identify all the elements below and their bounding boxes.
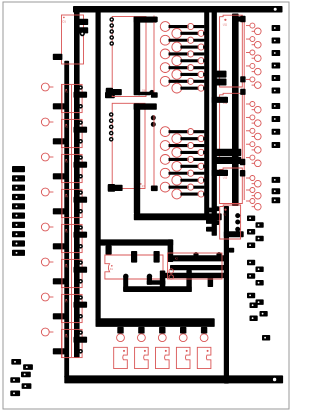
pad bottom-left 4 <box>10 377 20 383</box>
via pair G2-A1 <box>160 127 204 137</box>
relay K2 outline <box>168 253 222 279</box>
pad left column 10 <box>12 250 25 256</box>
net chain link mid <box>71 85 73 357</box>
junction P7-a <box>151 115 156 120</box>
pad right column 7 <box>272 103 281 109</box>
svg-text:D1: D1 <box>63 20 67 24</box>
LED D13 pair <box>246 188 261 200</box>
via P7-1 <box>109 112 114 117</box>
svg-text:K1: K1 <box>110 269 114 271</box>
pad N3-5 <box>240 170 245 177</box>
IC U12 outline <box>220 93 243 162</box>
via pair G2-A5 <box>160 182 204 192</box>
LED D8 pair <box>246 115 261 126</box>
junction Ha-1 <box>193 252 198 257</box>
LED D2 pair <box>246 23 261 34</box>
pad chain 6 <box>247 260 255 266</box>
wire J1 trunk <box>134 17 141 96</box>
pad D1-3 <box>53 54 63 60</box>
connector X5 outline <box>197 347 211 368</box>
wire V1 <box>168 239 174 262</box>
pad left column 2 <box>12 175 25 181</box>
wire Ha <box>168 255 226 261</box>
via R4 top <box>78 190 83 195</box>
pad right column 12 <box>272 188 281 194</box>
wire loop vertical 2 <box>186 270 191 292</box>
via P7-3 <box>109 125 114 130</box>
via pair G2-B5 <box>172 189 205 199</box>
wire P1 foot <box>224 231 244 237</box>
pin pad R6-b (left stub) <box>53 278 65 284</box>
via R3 top <box>78 155 83 160</box>
pad bottom-left 2 <box>23 364 33 370</box>
pad K1 top1 <box>131 251 137 263</box>
wire trunk A (left inner vertical) <box>74 7 80 358</box>
pad T2 side a <box>215 206 220 211</box>
pad chain 1 <box>247 216 255 222</box>
via pair G2-A4 <box>160 168 204 178</box>
pad K2 bottom <box>208 277 214 287</box>
pad right column 13 <box>272 197 281 203</box>
via pair G1-B5 <box>172 83 205 93</box>
pin pad R6-a (crossbar) <box>74 267 88 273</box>
pin circle X3 <box>158 334 166 342</box>
pin pad X3 <box>159 327 165 334</box>
via R7 bottom <box>78 314 83 319</box>
pin pad R4-b (left stub) <box>53 208 65 214</box>
pad N3-3 <box>240 89 245 95</box>
via D1 <box>80 31 85 36</box>
connector X4 outline <box>176 347 190 368</box>
wire top ground bus <box>73 6 283 13</box>
via J1-1 <box>109 17 114 22</box>
resistor R3 outline <box>62 154 83 182</box>
pad U11 bot2 <box>212 79 227 86</box>
pad right column 10 <box>272 142 281 148</box>
via R2 bottom <box>78 139 83 144</box>
wire U-link vertical 2 <box>160 271 166 288</box>
pad left column 8 <box>12 231 25 237</box>
pad T3 side <box>229 248 234 253</box>
via pair G1-B4 <box>172 70 205 80</box>
wire U-link vertical <box>147 276 152 285</box>
connector X1 outline <box>114 347 128 368</box>
LED D4 pair <box>246 50 261 62</box>
pad P1-3 <box>206 227 213 232</box>
LED D14 pair <box>246 199 261 211</box>
pin pad R1-a (crossbar) <box>74 92 88 98</box>
LED D7 pair <box>246 102 261 113</box>
via R5 top <box>78 225 83 230</box>
pad U12 bot2 <box>214 157 242 164</box>
connector P1 outline <box>220 205 241 239</box>
via J1-4 <box>109 35 114 40</box>
pad chain 15 <box>262 335 270 341</box>
resistor R1 outline <box>62 84 83 112</box>
pin pad X5 <box>201 327 207 334</box>
via pair G2-A3 <box>160 155 204 165</box>
via R7 top <box>78 295 83 300</box>
via pair G2-A2 <box>160 141 204 151</box>
junction P1-b <box>235 220 240 225</box>
pin pad R4-a (crossbar) <box>74 197 88 203</box>
pad right column 2 <box>272 38 281 44</box>
pad left column 7 <box>12 222 25 228</box>
wire connector bus <box>96 318 215 327</box>
pin pad R2-a (crossbar) <box>74 127 88 133</box>
pad right column 4 <box>272 63 281 69</box>
via R1 bottom <box>78 104 83 109</box>
net link N1 <box>153 16 155 98</box>
wire Hb <box>170 265 225 270</box>
wire Hc <box>164 273 225 278</box>
pad bottom-left 3 <box>21 372 31 378</box>
pad right column 8 <box>272 116 281 122</box>
pad right column 5 <box>272 75 281 81</box>
via R3 bottom <box>78 174 83 179</box>
pad chain 9 <box>256 280 264 286</box>
test point TP5 <box>41 223 53 231</box>
wire J1 arm <box>134 17 157 23</box>
via pair G1-B3 <box>172 56 205 66</box>
pad chain 8 <box>247 273 255 279</box>
pad N3-4 <box>240 159 245 166</box>
via pair G2-B2 <box>172 148 205 158</box>
LED D5 pair <box>246 63 261 75</box>
pad N1 top <box>151 17 158 23</box>
LED D11 pair <box>246 155 261 167</box>
via R1 top <box>78 85 83 90</box>
pad chain 10 <box>247 293 255 299</box>
wire P7 arm <box>134 103 157 109</box>
junction Ha-2 <box>216 252 221 257</box>
via pair G1-B2 <box>172 42 205 52</box>
pad D1-2 <box>79 27 88 33</box>
pad bottom-left 1 <box>11 359 21 365</box>
pin circle X5 <box>200 334 208 342</box>
resistor R5 outline <box>62 224 83 252</box>
via pair G1-A2 <box>160 35 204 45</box>
pad chain 5 <box>247 243 255 249</box>
via R2 top <box>78 120 83 125</box>
pin pad R3-a (crossbar) <box>74 162 88 168</box>
wire bar A <box>98 239 173 245</box>
pad N1 bottom <box>151 92 158 98</box>
pad chain 12 <box>250 303 258 309</box>
wire J1 link <box>138 92 151 95</box>
pad chain 2 <box>256 222 264 228</box>
connector P7 outline <box>112 103 145 188</box>
via J1-5 <box>109 41 114 46</box>
pin pad X4 <box>180 327 186 334</box>
connector J1 outline <box>112 17 146 97</box>
pin circle X4 <box>179 334 187 342</box>
resistor R6 outline <box>62 259 83 287</box>
pad left column 1 <box>12 166 25 172</box>
pad U12 bot1 <box>214 149 242 156</box>
via P7-5 <box>109 137 114 142</box>
pin pad R5-b (left stub) <box>53 243 65 249</box>
test point TP1 <box>41 83 53 91</box>
pad right column 3 <box>272 50 281 56</box>
pad left column 6 <box>12 213 25 219</box>
wire bus B (horizontal mid) <box>134 213 222 220</box>
pin pad R7-b (left stub) <box>53 313 65 319</box>
net chain link left <box>61 84 63 357</box>
pin pad R8-a (crossbar) <box>74 337 88 343</box>
IC U13 outline <box>220 168 243 204</box>
pad N2 bottom <box>151 186 158 192</box>
test point TP7 <box>41 293 53 301</box>
junction K1-a <box>123 274 128 279</box>
pad bottom-left 6 <box>10 391 20 397</box>
pin pad R5-a (crossbar) <box>74 232 88 238</box>
wire loop horizontal <box>123 286 192 292</box>
resistor R4 outline <box>62 189 83 217</box>
pad P1-1 <box>206 208 213 213</box>
LED D12 pair <box>246 176 261 188</box>
resistor R7 outline <box>62 294 83 322</box>
pin pad R7-a (crossbar) <box>74 302 88 308</box>
pad U13 top <box>212 170 228 176</box>
wire trunk T2 <box>212 7 217 236</box>
via pair G2-B1 <box>172 134 205 144</box>
connector X3 outline <box>156 347 170 368</box>
pad U12 top <box>212 97 228 103</box>
wire IC column trunk <box>232 14 239 207</box>
pad chain 13 <box>260 311 268 317</box>
pad T2 side b <box>215 220 220 225</box>
junction K1-b <box>147 274 152 279</box>
resistor R8 outline <box>62 329 83 357</box>
resistor R2 outline <box>62 119 83 147</box>
pad left column 4 <box>12 194 25 200</box>
wire P7 trunk <box>134 103 140 213</box>
wire loop vertical <box>123 276 128 292</box>
pad P1-2 <box>206 219 213 224</box>
via pair G1-A3 <box>160 49 204 59</box>
wire trunk B (leftmost vertical) <box>64 61 69 378</box>
wire trunk T3 <box>224 206 229 384</box>
pad P7 foot stub <box>108 184 123 192</box>
LED D10 pair <box>246 142 261 154</box>
pad K1 top2 <box>154 251 160 263</box>
pad board-left stub <box>105 92 115 98</box>
pad chain 14 <box>250 316 258 322</box>
wire bottom bus <box>64 375 283 383</box>
test point TP3 <box>41 153 53 161</box>
pad J1 foot stub <box>106 88 122 96</box>
pad right column 9 <box>272 129 281 135</box>
test point TP2 <box>41 118 53 126</box>
via R4 bottom <box>78 209 83 214</box>
pin pad R1-b (left stub) <box>53 103 65 109</box>
via R6 bottom <box>78 279 83 284</box>
pin pad X1 <box>117 327 123 334</box>
pad left column 5 <box>12 203 25 209</box>
LED D6 pair <box>246 77 261 88</box>
net link N2 <box>153 115 155 191</box>
pad left column 3 <box>12 185 25 191</box>
pad U11 top <box>236 16 245 21</box>
svg-text:U11: U11 <box>223 24 228 27</box>
junction P7-b <box>151 122 156 127</box>
via R8 top <box>78 330 83 335</box>
pin pad X2 <box>138 327 144 334</box>
pin circle X1 <box>117 334 125 342</box>
wire trunk T1 <box>204 7 209 220</box>
via pair G2-B4 <box>172 175 205 185</box>
pin pad R8-b (left stub) <box>53 348 65 354</box>
pad right column 6 <box>272 88 281 94</box>
test point TP4 <box>41 188 53 196</box>
via P7-4 <box>109 131 114 136</box>
pin pad R2-b (left stub) <box>53 138 65 144</box>
pad chain 4 <box>256 236 264 242</box>
via pair G1-B1 <box>172 28 205 38</box>
pad chain 11 <box>256 299 264 305</box>
pad right column 1 <box>272 25 281 31</box>
pad chain 3 <box>247 229 255 235</box>
wire board-left trunk <box>96 7 101 322</box>
pad left column 9 <box>12 240 25 246</box>
pad U11 bot1 <box>212 71 227 78</box>
test point TP8 <box>41 328 53 336</box>
pad right column 11 <box>272 177 281 183</box>
via J1-2 <box>109 23 114 28</box>
via R8 bottom <box>78 349 83 354</box>
wire U-link horizontal <box>147 280 166 285</box>
connector X2 outline <box>135 347 149 368</box>
IC U11 outline <box>220 15 243 87</box>
relay K1 outline <box>105 255 163 279</box>
via R6 top <box>78 260 83 265</box>
pad N3-2 <box>240 76 245 82</box>
junction P1-c <box>235 227 240 232</box>
test point TP6 <box>41 258 53 266</box>
via pair G1-A5 <box>160 76 204 86</box>
LED D3 pair <box>246 37 261 49</box>
pad bottom-left 5 <box>22 383 32 389</box>
junction J1 <box>149 90 154 95</box>
pad N3-1 <box>240 16 245 23</box>
junction P1-a <box>235 213 240 218</box>
wire stub below bar A <box>106 246 112 255</box>
pad D1-1 <box>79 19 88 25</box>
net link N3 <box>243 19 245 201</box>
via pair G1-A1 <box>160 22 204 32</box>
via J1-3 <box>109 29 114 34</box>
via pair G1-A4 <box>160 63 204 73</box>
pad chain 7 <box>256 267 264 273</box>
via P7-2 <box>109 118 114 123</box>
via R5 bottom <box>78 244 83 249</box>
diode D1 outline <box>62 15 84 64</box>
pin circle X2 <box>138 334 146 342</box>
pin pad R3-b (left stub) <box>53 173 65 179</box>
svg-text:U13: U13 <box>223 177 228 180</box>
via pair G2-B3 <box>172 161 205 171</box>
LED D9 pair <box>246 128 261 140</box>
